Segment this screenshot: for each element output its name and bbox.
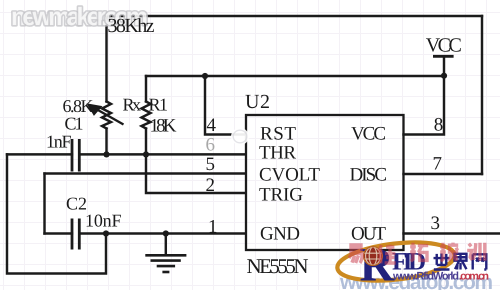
svg-text:NE555N: NE555N	[247, 254, 309, 278]
svg-text:U2: U2	[245, 91, 270, 113]
svg-text:TRIG: TRIG	[259, 185, 303, 206]
svg-text:THR: THR	[259, 143, 296, 164]
svg-text:C2: C2	[66, 194, 87, 214]
svg-text:GND: GND	[260, 224, 300, 245]
svg-text:6: 6	[206, 135, 216, 156]
svg-text:CVOLT: CVOLT	[259, 165, 320, 186]
svg-text:www.RfidWorld: www.RfidWorld	[392, 271, 459, 283]
svg-text:VCC: VCC	[351, 124, 386, 145]
svg-text:5: 5	[206, 154, 216, 175]
svg-text:.com.cn: .com.cn	[459, 271, 489, 283]
svg-text:Rx: Rx	[123, 95, 142, 115]
svg-text:C1: C1	[65, 114, 84, 134]
svg-text:2: 2	[206, 175, 216, 196]
svg-text:7: 7	[433, 154, 443, 175]
svg-text:3: 3	[431, 213, 441, 234]
svg-text:4: 4	[207, 115, 217, 136]
svg-text:1nF: 1nF	[46, 132, 72, 152]
svg-text:DISC: DISC	[350, 165, 388, 186]
svg-text:8: 8	[434, 115, 444, 136]
svg-text:RST: RST	[260, 124, 296, 145]
svg-text:10nF: 10nF	[85, 211, 122, 231]
svg-text:VCC: VCC	[426, 35, 462, 57]
svg-text:18K: 18K	[150, 116, 177, 137]
svg-text:R1: R1	[149, 95, 169, 115]
svg-text:1: 1	[208, 217, 218, 238]
svg-text:38Khz: 38Khz	[108, 15, 155, 37]
